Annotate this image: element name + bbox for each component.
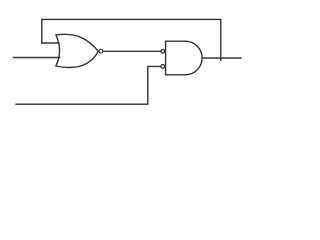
wire NOR top input xyxy=(42,42,59,44)
NOR gate U1 output bubble xyxy=(99,49,103,53)
wire NOR output to AND top input xyxy=(103,50,160,52)
wire bottom input rail up to AND lower input xyxy=(16,66,160,104)
AND gate U2 input bubble bottom xyxy=(161,65,165,69)
wire feedback top: NOR top input up, across, down to output net xyxy=(42,19,221,60)
AND gate U2 input bubble top xyxy=(161,49,165,53)
AND gate U2 body (inverted-input AND) xyxy=(166,41,202,75)
wire AND output xyxy=(202,57,241,59)
wire NOR bottom input from left edge xyxy=(13,57,59,59)
NOR gate U1 body (OR shape) xyxy=(56,34,98,67)
